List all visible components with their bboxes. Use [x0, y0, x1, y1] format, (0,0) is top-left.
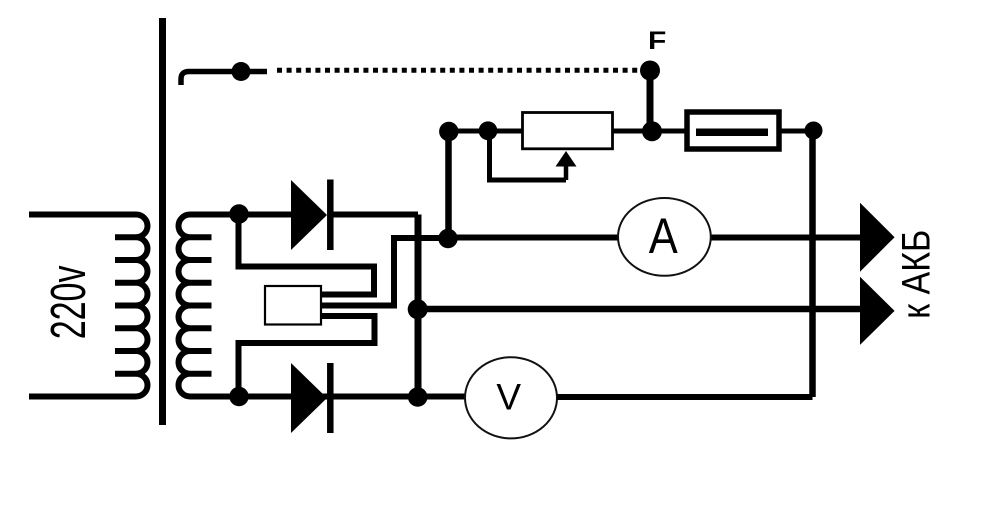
relay bottom hook wire: [239, 316, 375, 396]
wire fuse to right node: [779, 129, 814, 134]
relay middle pin wire: [322, 238, 448, 306]
node fuse right: [805, 122, 823, 140]
relay K1 box: [265, 286, 321, 325]
rheostat R1 body: [523, 113, 613, 149]
secondary winding coil: [179, 215, 190, 397]
wire vertical at x418: [415, 215, 422, 398]
secondary winding connectors: [190, 237, 212, 374]
node secondary top: [229, 204, 248, 223]
diode D1 triangle: [291, 180, 327, 250]
wire V to right vertical: [557, 394, 813, 400]
diode D2 triangle: [291, 363, 327, 433]
node top row left: [439, 122, 458, 141]
rheostat wiper arrow: [556, 151, 577, 167]
node A line: [438, 229, 457, 248]
middle output wire: [418, 306, 860, 313]
primary winding bottom wire: [29, 394, 136, 400]
relay top hook wire: [239, 214, 375, 295]
dotted linkage line: [277, 68, 641, 73]
transformer core: [159, 18, 166, 425]
wire D1 to right vertical: [333, 212, 418, 218]
rheostat wiper stem: [564, 165, 569, 180]
svg-text:V: V: [496, 377, 521, 418]
diode D1 cathode bar: [327, 180, 334, 251]
voltmeter V circle: [465, 357, 557, 438]
wire secondary top to diode D1: [190, 212, 293, 218]
wire rheostat row left: [448, 129, 523, 134]
primary winding coil: [136, 215, 148, 397]
rheostat wiper return wire: [490, 131, 567, 180]
svg-text:к АКБ: к АКБ: [894, 230, 938, 319]
node bottom wire: [408, 387, 428, 407]
node below F: [642, 121, 662, 141]
node on linkage wire: [232, 62, 251, 81]
primary winding connectors: [115, 237, 136, 374]
wire rheostat to fuse: [613, 129, 688, 134]
primary winding top wire: [29, 212, 136, 218]
fuse linkage hook wire top left: [181, 72, 267, 86]
arrow to battery 2: [860, 277, 895, 345]
diode D2 cathode bar: [327, 363, 334, 433]
node secondary bottom: [229, 387, 248, 406]
arrow to battery 1: [860, 203, 895, 272]
node top row second: [479, 121, 498, 140]
node F: [640, 61, 660, 81]
wire rheostat left down to A line: [445, 132, 452, 239]
fuse FU1 inner bar: [696, 129, 768, 137]
ammeter wire: [448, 235, 860, 241]
svg-text:F: F: [648, 26, 666, 54]
svg-text:220v: 220v: [41, 266, 96, 340]
node middle wire: [408, 299, 428, 319]
wire F down: [647, 71, 654, 131]
svg-text:A: A: [649, 208, 679, 263]
wire right vertical bus: [809, 131, 816, 397]
ammeter A circle: [618, 198, 711, 276]
wire secondary bottom to V meter: [190, 394, 467, 400]
fuse FU1 body: [687, 112, 779, 149]
